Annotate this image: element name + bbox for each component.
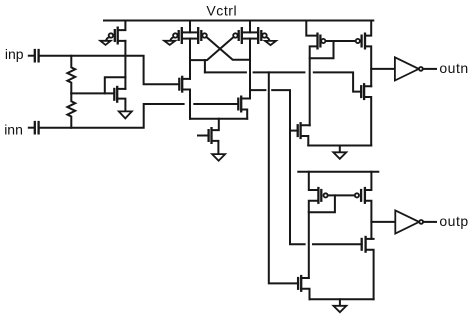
wire outn-stage bottom <box>308 145 371 147</box>
capacitor C2 (inn) <box>29 121 39 135</box>
svg-text:outp: outp <box>439 213 468 229</box>
wire P7 diode loop <box>309 195 335 212</box>
transistor P6 (PMOS mirror, outn stage) <box>356 21 372 87</box>
resistor R2 <box>67 93 75 127</box>
transistor M3 (input NMOS, inp) <box>179 76 190 93</box>
wire P7-P8 gate line <box>328 194 355 196</box>
transistor M8 (NMOS, gate node B) <box>298 122 310 145</box>
wire cross-couple to node A (from S2 left gate) <box>190 37 234 60</box>
wire P5-P6 gate line <box>326 40 356 42</box>
capacitor C1 (inp) <box>29 49 39 63</box>
wire outn node <box>371 68 395 70</box>
ground arrow P1 gate <box>100 37 110 45</box>
wire node B to M8/M10 gates (with crossing gaps) <box>250 90 362 244</box>
ground outn stage <box>333 146 346 159</box>
buffer U1 (outn) <box>395 57 436 80</box>
wire cross-couple to node B (from S1 right gate) <box>206 37 250 60</box>
wire outp node <box>371 221 395 223</box>
transistor M5 (tail NMOS) <box>198 119 219 154</box>
transistor P1 (PMOS, gate grounded via arrow) <box>109 21 126 45</box>
wire common tail node <box>190 118 247 120</box>
buffer U2 (outp) <box>395 210 436 233</box>
wire M2 diode loop <box>105 77 126 93</box>
transistor M2 (diode-connected NMOS) <box>114 86 125 112</box>
svg-text:outn: outn <box>439 60 468 76</box>
svg-text:inn: inn <box>4 121 23 137</box>
transistor P5 (PMOS diode, outn stage) <box>306 21 325 126</box>
wire M3 source down to tail <box>189 90 191 119</box>
svg-text:inp: inp <box>5 46 24 62</box>
ground arrow S2 right gate <box>265 37 276 45</box>
transistor P8 (PMOS mirror, outp stage) <box>355 172 372 239</box>
wire P1 drain to M2 drain <box>124 41 126 89</box>
transistor M4 (input NMOS, inn) <box>238 96 250 119</box>
ground arrow S1 left gate <box>164 37 175 45</box>
transistor M11 (NMOS, gate node A) <box>298 275 309 299</box>
resistor R1 <box>67 56 75 94</box>
load S2 (dual-gate PMOS pair) <box>233 21 266 99</box>
wire inn net to M4 gate <box>39 104 239 128</box>
wire M8 gate tap <box>290 130 298 132</box>
wire R midpoint to M2 gate <box>71 92 114 94</box>
wire node A long vertical to M11 gate <box>269 72 298 283</box>
transistor P7 (PMOS diode, outp stage) <box>309 172 328 278</box>
ground outp stage <box>333 299 346 312</box>
wire inp net to M3 gate <box>39 56 180 85</box>
wire outp-stage rail <box>298 171 378 173</box>
wire outp-stage bottom <box>310 298 374 300</box>
transistor M10 (NMOS, gate node B) <box>362 236 374 299</box>
svg-text:Vctrl: Vctrl <box>206 2 237 18</box>
ground M2 <box>119 111 132 118</box>
wire P5 diode loop <box>310 41 334 58</box>
wire node A tap down to outn-stage wire <box>204 60 206 72</box>
wire Vctrl rail <box>104 20 373 22</box>
ground M5 <box>212 154 225 161</box>
transistor M6 (NMOS, gate node A) <box>361 83 371 145</box>
wire node A to outn stage and M11 (with crossing gaps) <box>205 72 361 91</box>
load S1 (dual-gate PMOS pair) <box>173 21 207 79</box>
